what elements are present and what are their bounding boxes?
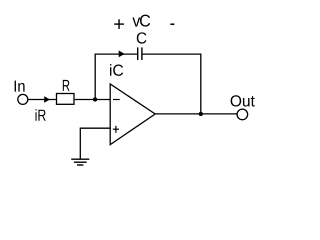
- op-amp minus pin mark: [113, 99, 120, 101]
- label plus polarity: [114, 19, 124, 29]
- node junction output: [199, 112, 203, 116]
- label In: [15, 81, 25, 92]
- label R: [63, 80, 70, 91]
- terminal Out: [237, 109, 248, 120]
- op-amp U1: [110, 84, 155, 145]
- node junction input: [93, 97, 97, 101]
- label Out: [231, 95, 255, 106]
- op-amp plus pin mark: [113, 126, 119, 133]
- arrow iC: [119, 51, 125, 58]
- label vC: [132, 15, 150, 27]
- wire capacitor left: [95, 53, 138, 55]
- wire plus input: [80, 127, 110, 129]
- label minus polarity: [170, 23, 174, 25]
- terminal In: [18, 94, 28, 104]
- arrow iR: [44, 96, 50, 103]
- label C: [137, 32, 147, 43]
- wire output: [155, 113, 237, 115]
- wire resistor to op-amp: [75, 99, 111, 101]
- label iR: [36, 109, 46, 121]
- wire ground drop: [79, 128, 81, 160]
- wire feedback up: [94, 54, 96, 99]
- label iC: [110, 64, 123, 76]
- capacitor C: [138, 47, 142, 60]
- ground: [71, 159, 89, 165]
- wire feedback down: [200, 53, 202, 113]
- resistor R: [57, 94, 75, 105]
- wire capacitor right: [143, 53, 201, 55]
- wire input: [28, 99, 56, 101]
